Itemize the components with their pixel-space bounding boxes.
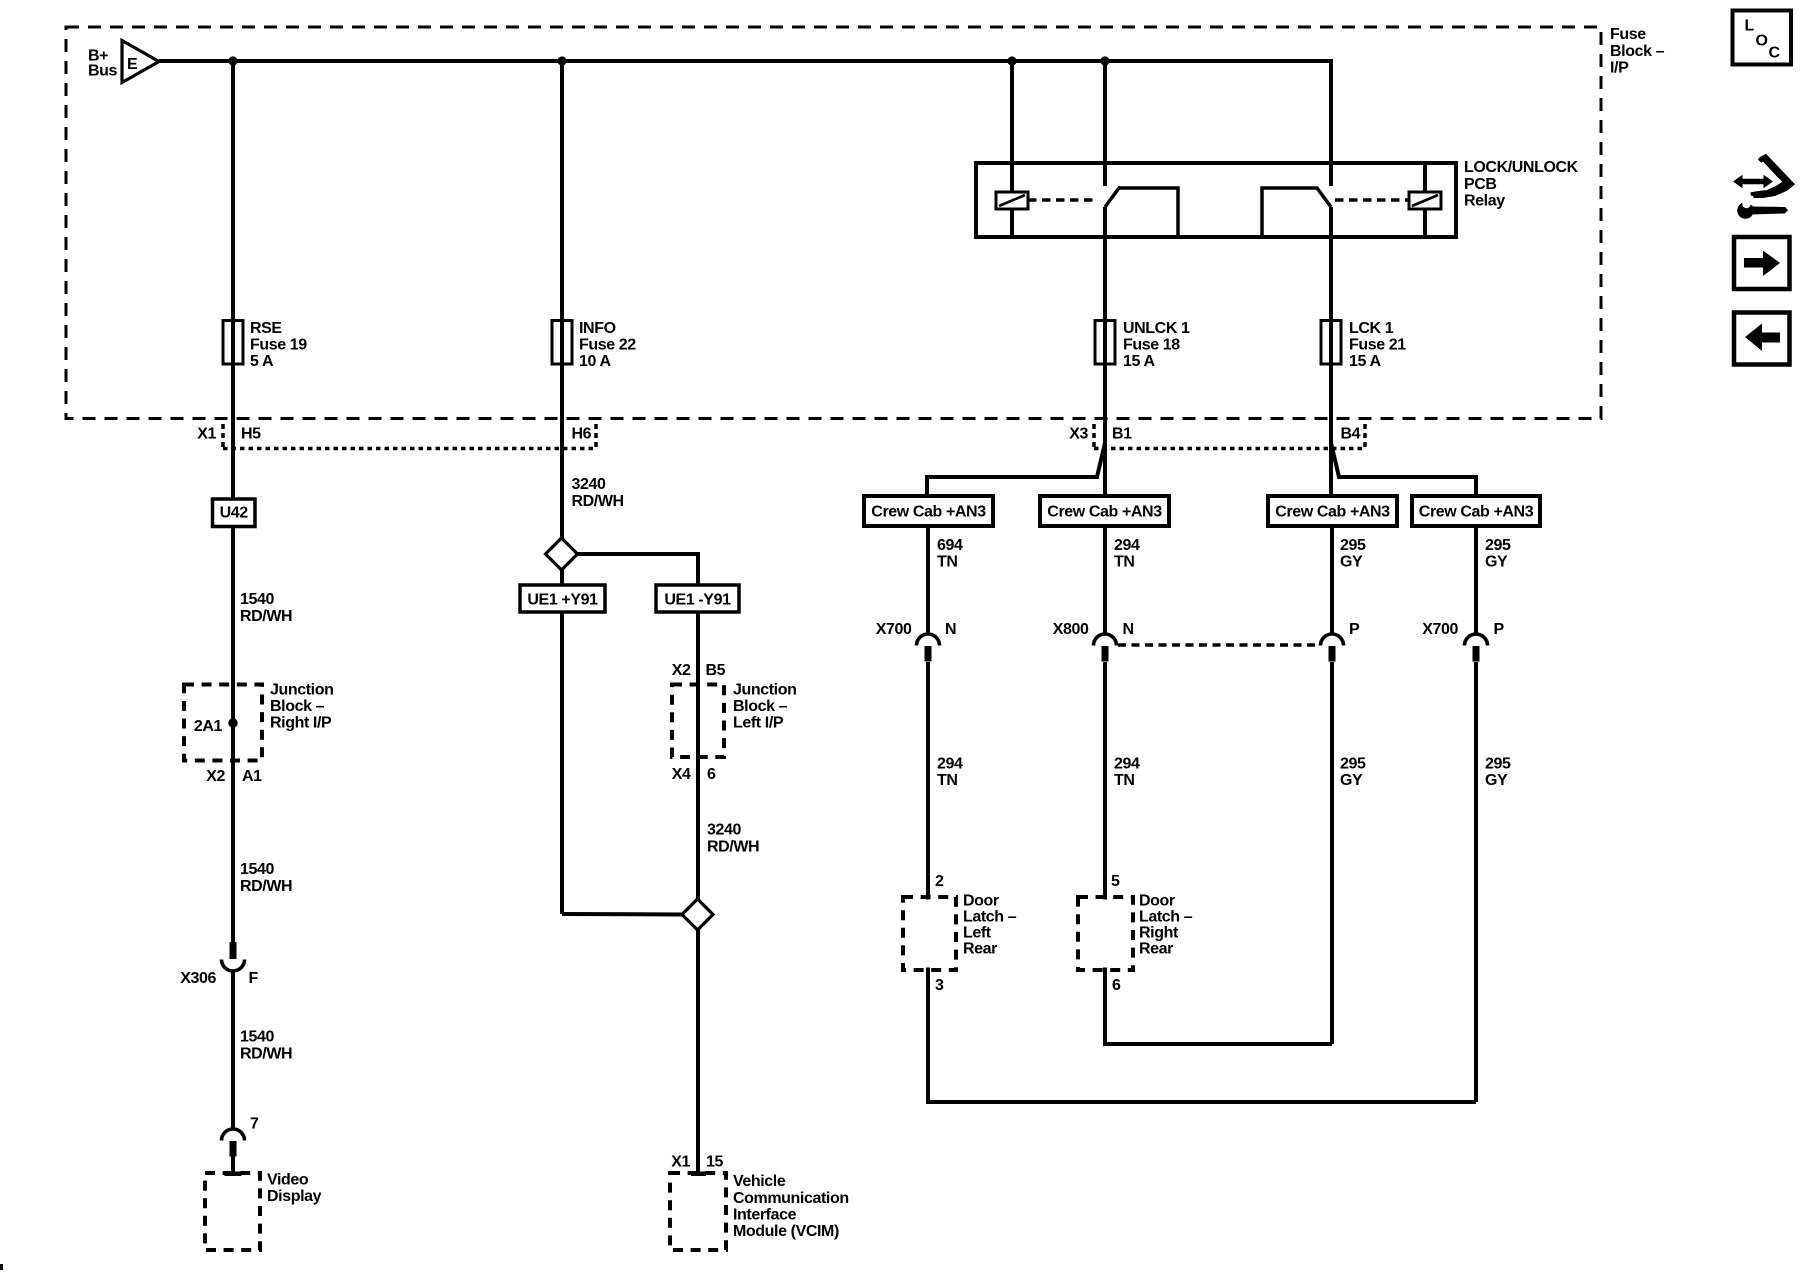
- svg-text:Block –: Block –: [733, 698, 788, 715]
- svg-text:15 A: 15 A: [1349, 353, 1381, 370]
- svg-text:10 A: 10 A: [579, 353, 611, 370]
- svg-text:294: 294: [1114, 756, 1140, 773]
- svg-text:Crew Cab +AN3: Crew Cab +AN3: [1419, 503, 1534, 520]
- svg-text:H5: H5: [241, 425, 261, 442]
- svg-text:5: 5: [1111, 873, 1120, 890]
- svg-text:O: O: [1756, 32, 1768, 49]
- svg-text:LCK 1: LCK 1: [1349, 320, 1394, 337]
- svg-text:Block –: Block –: [1610, 43, 1665, 60]
- svg-text:GY: GY: [1485, 772, 1508, 789]
- svg-text:X800: X800: [1053, 621, 1089, 638]
- svg-text:Relay: Relay: [1464, 192, 1505, 209]
- svg-text:295: 295: [1485, 756, 1511, 773]
- svg-text:UE1 -Y91: UE1 -Y91: [664, 591, 731, 608]
- svg-text:X700: X700: [876, 621, 912, 638]
- svg-text:LOCK/UNLOCK: LOCK/UNLOCK: [1464, 159, 1579, 176]
- svg-text:RD/WH: RD/WH: [240, 878, 292, 895]
- svg-text:L: L: [1745, 18, 1755, 35]
- svg-text:1540: 1540: [240, 1029, 274, 1046]
- svg-text:TN: TN: [937, 554, 958, 571]
- svg-text:Door: Door: [1139, 893, 1175, 910]
- svg-text:Interface: Interface: [733, 1206, 797, 1223]
- svg-text:X2: X2: [672, 662, 691, 679]
- svg-text:RD/WH: RD/WH: [572, 493, 624, 510]
- svg-text:P: P: [1349, 621, 1360, 638]
- svg-text:Fuse 22: Fuse 22: [579, 336, 636, 353]
- svg-text:Junction: Junction: [733, 682, 796, 699]
- svg-text:TN: TN: [1114, 772, 1135, 789]
- svg-text:Right: Right: [1139, 925, 1179, 942]
- svg-text:TN: TN: [1114, 554, 1135, 571]
- svg-text:Display: Display: [267, 1188, 322, 1205]
- svg-text:INFO: INFO: [579, 320, 616, 337]
- svg-text:295: 295: [1485, 537, 1511, 554]
- svg-text:B1: B1: [1112, 425, 1132, 442]
- svg-text:Left: Left: [963, 925, 992, 942]
- svg-text:Latch –: Latch –: [1139, 909, 1193, 926]
- svg-text:295: 295: [1340, 756, 1366, 773]
- svg-text:Vehicle: Vehicle: [733, 1173, 786, 1190]
- svg-text:B4: B4: [1341, 425, 1361, 442]
- svg-text:3240: 3240: [572, 476, 606, 493]
- svg-text:3240: 3240: [707, 822, 741, 839]
- svg-text:RSE: RSE: [250, 320, 282, 337]
- svg-text:Communication: Communication: [733, 1190, 849, 1207]
- svg-text:294: 294: [1114, 537, 1140, 554]
- svg-text:X3: X3: [1069, 425, 1088, 442]
- svg-text:GY: GY: [1340, 772, 1363, 789]
- svg-text:GY: GY: [1340, 554, 1363, 571]
- svg-text:PCB: PCB: [1464, 176, 1497, 193]
- svg-text:Rear: Rear: [1139, 941, 1173, 958]
- svg-text:E: E: [127, 56, 138, 73]
- svg-text:F: F: [249, 970, 259, 987]
- svg-text:UE1 +Y91: UE1 +Y91: [527, 591, 598, 608]
- svg-text:X700: X700: [1422, 621, 1458, 638]
- svg-text:RD/WH: RD/WH: [707, 838, 759, 855]
- svg-text:I/P: I/P: [1610, 59, 1629, 76]
- svg-text:Crew Cab +AN3: Crew Cab +AN3: [871, 503, 986, 520]
- svg-text:6: 6: [707, 766, 716, 783]
- svg-text:Left I/P: Left I/P: [733, 715, 784, 732]
- svg-text:Crew Cab +AN3: Crew Cab +AN3: [1047, 503, 1162, 520]
- svg-text:694: 694: [937, 537, 963, 554]
- svg-text:Rear: Rear: [963, 941, 997, 958]
- svg-text:RD/WH: RD/WH: [240, 608, 292, 625]
- svg-text:Fuse: Fuse: [1610, 26, 1646, 43]
- svg-text:RD/WH: RD/WH: [240, 1045, 292, 1062]
- svg-text:UNLCK 1: UNLCK 1: [1123, 320, 1190, 337]
- svg-text:Door: Door: [963, 893, 999, 910]
- svg-text:2: 2: [935, 873, 944, 890]
- svg-text:294: 294: [937, 756, 963, 773]
- svg-text:X4: X4: [672, 766, 691, 783]
- svg-text:295: 295: [1340, 537, 1366, 554]
- svg-text:7: 7: [250, 1116, 259, 1133]
- svg-text:Right I/P: Right I/P: [270, 715, 332, 732]
- svg-text:N: N: [945, 621, 956, 638]
- svg-text:TN: TN: [937, 772, 958, 789]
- svg-text:Video: Video: [267, 1171, 309, 1188]
- svg-text:X306: X306: [180, 970, 216, 987]
- svg-text:Module (VCIM): Module (VCIM): [733, 1223, 839, 1240]
- svg-text:1540: 1540: [240, 591, 274, 608]
- svg-text:Block –: Block –: [270, 698, 325, 715]
- svg-text:X2: X2: [206, 768, 225, 785]
- svg-text:2A1: 2A1: [194, 718, 223, 735]
- svg-text:Bus: Bus: [88, 63, 118, 80]
- svg-text:P: P: [1494, 621, 1505, 638]
- svg-text:5 A: 5 A: [250, 353, 274, 370]
- svg-text:GY: GY: [1485, 554, 1508, 571]
- svg-text:U42: U42: [220, 505, 249, 522]
- svg-text:15 A: 15 A: [1123, 353, 1155, 370]
- svg-text:A1: A1: [242, 768, 262, 785]
- svg-text:B5: B5: [706, 662, 726, 679]
- svg-text:Crew Cab +AN3: Crew Cab +AN3: [1275, 503, 1390, 520]
- svg-text:1540: 1540: [240, 861, 274, 878]
- svg-text:Fuse 18: Fuse 18: [1123, 336, 1180, 353]
- svg-text:Fuse 21: Fuse 21: [1349, 336, 1406, 353]
- svg-text:N: N: [1123, 621, 1134, 638]
- svg-text:Latch –: Latch –: [963, 909, 1017, 926]
- svg-text:C: C: [1769, 45, 1781, 62]
- svg-text:X1: X1: [197, 425, 216, 442]
- svg-text:Fuse 19: Fuse 19: [250, 336, 307, 353]
- svg-text:X1: X1: [671, 1153, 690, 1170]
- svg-text:6: 6: [1112, 977, 1121, 994]
- svg-text:Junction: Junction: [270, 682, 333, 699]
- svg-text:15: 15: [706, 1153, 723, 1170]
- svg-text:H6: H6: [572, 425, 592, 442]
- svg-text:3: 3: [935, 977, 944, 994]
